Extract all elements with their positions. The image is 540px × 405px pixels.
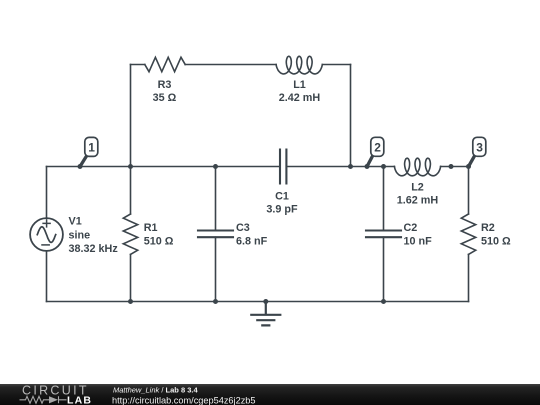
svg-text:C1: C1 (275, 190, 289, 202)
svg-text:510 Ω: 510 Ω (481, 236, 511, 248)
node 2 flag (367, 137, 384, 166)
wire left vertical V1 branch (46, 167, 48, 302)
svg-text:1.62 mH: 1.62 mH (397, 194, 439, 206)
svg-text:10 nF: 10 nF (404, 236, 433, 248)
V1 sine symbol (37, 227, 55, 243)
svg-text:sine: sine (69, 229, 91, 241)
svg-text:C2: C2 (404, 222, 418, 234)
svg-text:C3: C3 (236, 222, 250, 234)
svg-text:V1: V1 (69, 216, 82, 228)
node 1 flag (80, 137, 98, 166)
svg-text:http://circuitlab.com/cgep54z6: http://circuitlab.com/cgep54z6j2zb5 (112, 395, 256, 405)
svg-text:Matthew_Link / Lab 8 3.4: Matthew_Link / Lab 8 3.4 (113, 386, 198, 395)
svg-text:35 Ω: 35 Ω (153, 92, 177, 104)
svg-text:2: 2 (374, 141, 381, 155)
inductor L1 (276, 56, 322, 74)
wire bottom horizontal (ground net) (47, 301, 469, 303)
wire middle horizontal left (V1 to C1) (47, 166, 281, 168)
capacitor C3 plates (198, 231, 233, 238)
svg-text:510 Ω: 510 Ω (144, 236, 174, 248)
resistor R2 (461, 214, 475, 254)
svg-text:3.9 pF: 3.9 pF (266, 203, 298, 215)
svg-text:1: 1 (88, 141, 95, 155)
wire top-right vertical (L1 down to node2 net) (350, 65, 352, 167)
capacitor C2 plates (366, 231, 401, 238)
logo schematic squiggle (resistor + diode) (20, 396, 67, 403)
node 3 flag (469, 137, 486, 166)
wire R2 branch leads (468, 167, 470, 302)
ground symbol (251, 302, 280, 326)
inductor L2 (394, 158, 440, 176)
svg-text:3: 3 (476, 141, 483, 155)
wire C3 branch leads (215, 167, 217, 302)
svg-text:6.8 nF: 6.8 nF (236, 236, 268, 248)
voltage source V1 circle (30, 218, 63, 251)
svg-text:R2: R2 (481, 222, 495, 234)
svg-text:L1: L1 (293, 79, 306, 91)
svg-text:R3: R3 (158, 79, 172, 91)
junction dots middle net (78, 164, 472, 169)
V1 plus sign (43, 220, 50, 227)
V1 minus sign (42, 244, 49, 246)
capacitor C1 plates (280, 150, 286, 184)
svg-text:R1: R1 (144, 222, 158, 234)
svg-text:38.32 kHz: 38.32 kHz (69, 243, 119, 255)
wire middle horizontal right (C1 to node3 corner) (286, 166, 468, 168)
resistor R1 (123, 214, 137, 254)
svg-text:LAB: LAB (67, 394, 92, 405)
svg-text:2.42 mH: 2.42 mH (279, 92, 321, 104)
resistor R3 (145, 57, 185, 71)
wire R1 branch leads (130, 167, 132, 302)
junction dots ground net (128, 299, 386, 304)
wire top horizontal R3 to L1 (131, 64, 351, 66)
wire C2 branch leads (383, 167, 385, 302)
wire top-left vertical (node1 net up to R3) (130, 65, 132, 167)
svg-text:L2: L2 (411, 181, 424, 193)
